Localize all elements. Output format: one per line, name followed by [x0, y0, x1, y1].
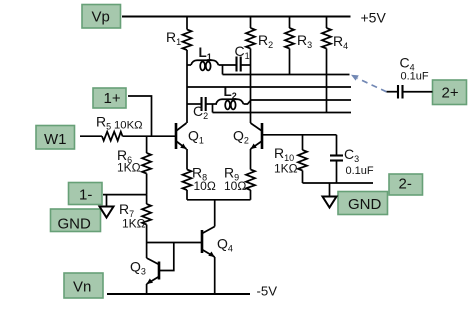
svg-text:10Ω: 10Ω	[224, 179, 246, 193]
port 1+	[93, 88, 126, 108]
wire: bus line 2 from Q1 collector	[187, 86, 351, 88]
svg-text:W1: W1	[44, 131, 67, 148]
resistor R10	[298, 135, 307, 183]
port 1-	[69, 183, 103, 205]
ground symbol left	[100, 207, 114, 218]
ground symbol right	[323, 197, 337, 208]
label R5 value 10K	[114, 120, 143, 132]
label R3	[297, 32, 312, 50]
resistor R5	[102, 132, 123, 141]
transistor Q3	[147, 258, 159, 294]
svg-text:L1: L1	[199, 45, 212, 62]
label R6 value	[117, 161, 141, 175]
wire: R3 bottom to bus line 1	[289, 49, 291, 75]
svg-text:1KΩ: 1KΩ	[117, 161, 141, 175]
port 2-	[389, 174, 423, 195]
svg-text:+5V: +5V	[361, 10, 387, 26]
transistor Q4	[202, 227, 215, 295]
wire: Q2 base to R10/C3	[262, 134, 337, 136]
svg-text:R3: R3	[297, 32, 312, 50]
svg-text:-5V: -5V	[257, 284, 278, 299]
wire: R4 bottom to bus line 4	[326, 49, 328, 113]
resistor R7	[142, 195, 151, 243]
svg-text:R1: R1	[166, 29, 181, 47]
inductor L2	[216, 99, 244, 109]
wire: -5V bottom rail	[107, 293, 250, 295]
wire: L1 to C1	[219, 64, 237, 66]
svg-text:Q3: Q3	[130, 259, 146, 277]
svg-text:C3: C3	[344, 146, 359, 164]
label R1	[166, 29, 181, 47]
dashed arrow from C4 to bus line 1	[351, 75, 387, 92]
label R4	[333, 33, 348, 51]
capacitor C3	[330, 135, 343, 183]
label R7	[119, 201, 134, 219]
wire: R2 bottom to Q2 collector	[250, 49, 252, 124]
svg-text:1+: 1+	[104, 90, 121, 107]
wire: current mirror base bus	[147, 242, 202, 244]
label C4 value	[401, 71, 429, 83]
label C3 value	[346, 165, 374, 177]
svg-text:R10: R10	[274, 145, 294, 163]
label Q1	[188, 128, 204, 146]
label C2	[193, 103, 208, 121]
svg-text:R5: R5	[96, 114, 111, 132]
port W1	[36, 126, 75, 150]
svg-text:10KΩ: 10KΩ	[114, 120, 143, 132]
port 2+	[433, 80, 467, 105]
label R8	[192, 165, 207, 183]
label C1	[235, 43, 250, 61]
label R6	[117, 147, 132, 165]
port GND right	[338, 192, 388, 215]
svg-text:1KΩ: 1KΩ	[274, 162, 298, 176]
wire: tap from L1-C1 node down to bus line 1	[222, 65, 224, 75]
svg-text:GND: GND	[58, 216, 92, 233]
transistor Q1	[176, 123, 187, 149]
label L2	[224, 84, 237, 101]
port GND left	[51, 209, 101, 233]
label R9 value	[224, 179, 246, 193]
svg-text:Q2: Q2	[233, 128, 249, 146]
wire: W1 lead	[80, 135, 102, 137]
resistor R8	[183, 149, 192, 200]
label R8 value	[194, 179, 216, 193]
svg-text:GND: GND	[348, 196, 382, 213]
svg-text:2+: 2+	[442, 85, 459, 102]
resistor R6	[142, 136, 151, 194]
wire: Vp rail is above; 1+ lead	[128, 96, 152, 136]
wire: bus line 1	[223, 74, 350, 76]
svg-text:R2: R2	[258, 32, 273, 50]
wire: tap from C2-L2 node down to bus line 4	[212, 104, 214, 113]
wire: L2 to R2 line	[244, 101, 251, 105]
wire: R1 bottom to Q1 collector node	[186, 50, 188, 123]
capacitor C4	[387, 85, 433, 99]
wire: R5 to Q1 base	[123, 135, 177, 137]
svg-text:1-: 1-	[79, 187, 92, 204]
label Q3	[130, 259, 146, 277]
port Vn	[64, 273, 103, 298]
label L1	[199, 45, 212, 62]
wire: bus line 4	[213, 112, 352, 114]
port Vp	[82, 5, 121, 29]
label C4	[400, 55, 415, 73]
svg-text:Vp: Vp	[92, 9, 110, 26]
svg-text:1KΩ: 1KΩ	[122, 217, 146, 231]
svg-text:Q4: Q4	[217, 236, 233, 254]
svg-text:R4: R4	[333, 33, 348, 51]
resistor R1	[183, 17, 192, 51]
svg-text:0.1uF: 0.1uF	[401, 71, 429, 83]
wire: L1 branch from Q1 collector line	[187, 64, 191, 66]
label -5V	[257, 284, 278, 299]
svg-text:Q1: Q1	[188, 128, 204, 146]
capacitor C2	[202, 97, 206, 111]
label R9	[224, 165, 239, 183]
label Q4	[217, 236, 233, 254]
resistor R2	[246, 17, 255, 49]
wire: R10/C3 bottom line to 2-	[303, 183, 374, 197]
wire: +5V top rail	[122, 16, 351, 18]
label R5	[96, 114, 111, 132]
wire: Q3 collector tie	[146, 243, 148, 259]
resistor R4	[322, 17, 331, 49]
capacitor C1	[237, 57, 241, 72]
label +5V	[361, 10, 387, 26]
wire: C2 to L2	[206, 103, 217, 105]
inductor L1	[191, 60, 219, 70]
resistor R9	[246, 149, 255, 200]
svg-text:2-: 2-	[399, 176, 412, 193]
resistor R3	[285, 17, 294, 49]
svg-text:10Ω: 10Ω	[194, 179, 216, 193]
label Q2	[233, 128, 249, 146]
svg-text:0.1uF: 0.1uF	[346, 165, 374, 177]
svg-text:Vn: Vn	[73, 279, 91, 296]
wire: bus line 3	[251, 99, 352, 101]
wire: 1- / GND tie to R6-R7 node	[103, 195, 147, 207]
label R2	[258, 32, 273, 50]
label R10 value	[274, 162, 298, 176]
wire: C1 to R2 line	[241, 64, 251, 66]
transistor Q2	[251, 123, 263, 149]
wire: C2 branch from Q1 collector line	[187, 103, 202, 105]
label R7 value	[122, 217, 146, 231]
label R10	[274, 145, 294, 163]
wire: Q3 base drop	[159, 243, 174, 271]
label C3	[344, 146, 359, 164]
wire: R8/R9 bottom join and tap to Q4 collector	[187, 200, 251, 227]
